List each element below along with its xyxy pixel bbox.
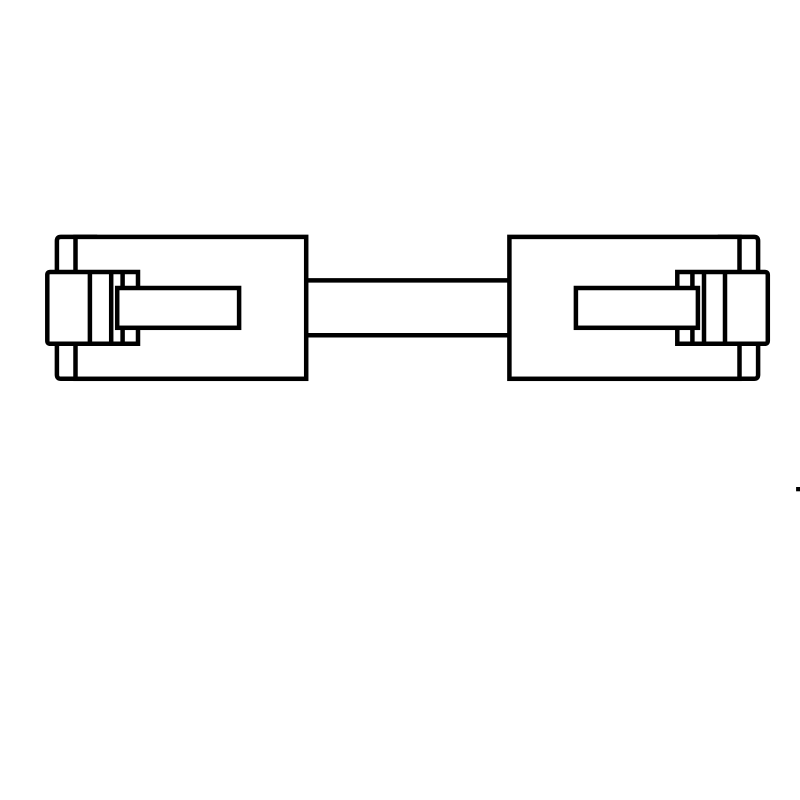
- right contact bar: [576, 288, 698, 328]
- right latch divider 3: [690, 272, 695, 344]
- edge tick mark: [796, 487, 800, 491]
- wire: cable top edge between connectors: [306, 278, 509, 283]
- left latch divider 1: [88, 272, 93, 344]
- right connector body: [509, 237, 739, 379]
- left latch divider 2: [109, 272, 114, 344]
- left contact bar: [117, 288, 239, 328]
- right latch divider 2: [702, 272, 707, 344]
- right connector boot (rounded strain-relief strip): [720, 237, 758, 379]
- left latch housing (rounded outer block): [47, 272, 138, 344]
- wire: cable bottom edge between connectors: [306, 333, 509, 338]
- right latch housing (rounded outer block): [677, 272, 768, 344]
- left connector body: [76, 237, 307, 379]
- left connector boot (rounded strain-relief strip): [57, 237, 95, 379]
- right latch divider 1: [723, 272, 728, 344]
- left latch divider 3: [120, 272, 125, 344]
